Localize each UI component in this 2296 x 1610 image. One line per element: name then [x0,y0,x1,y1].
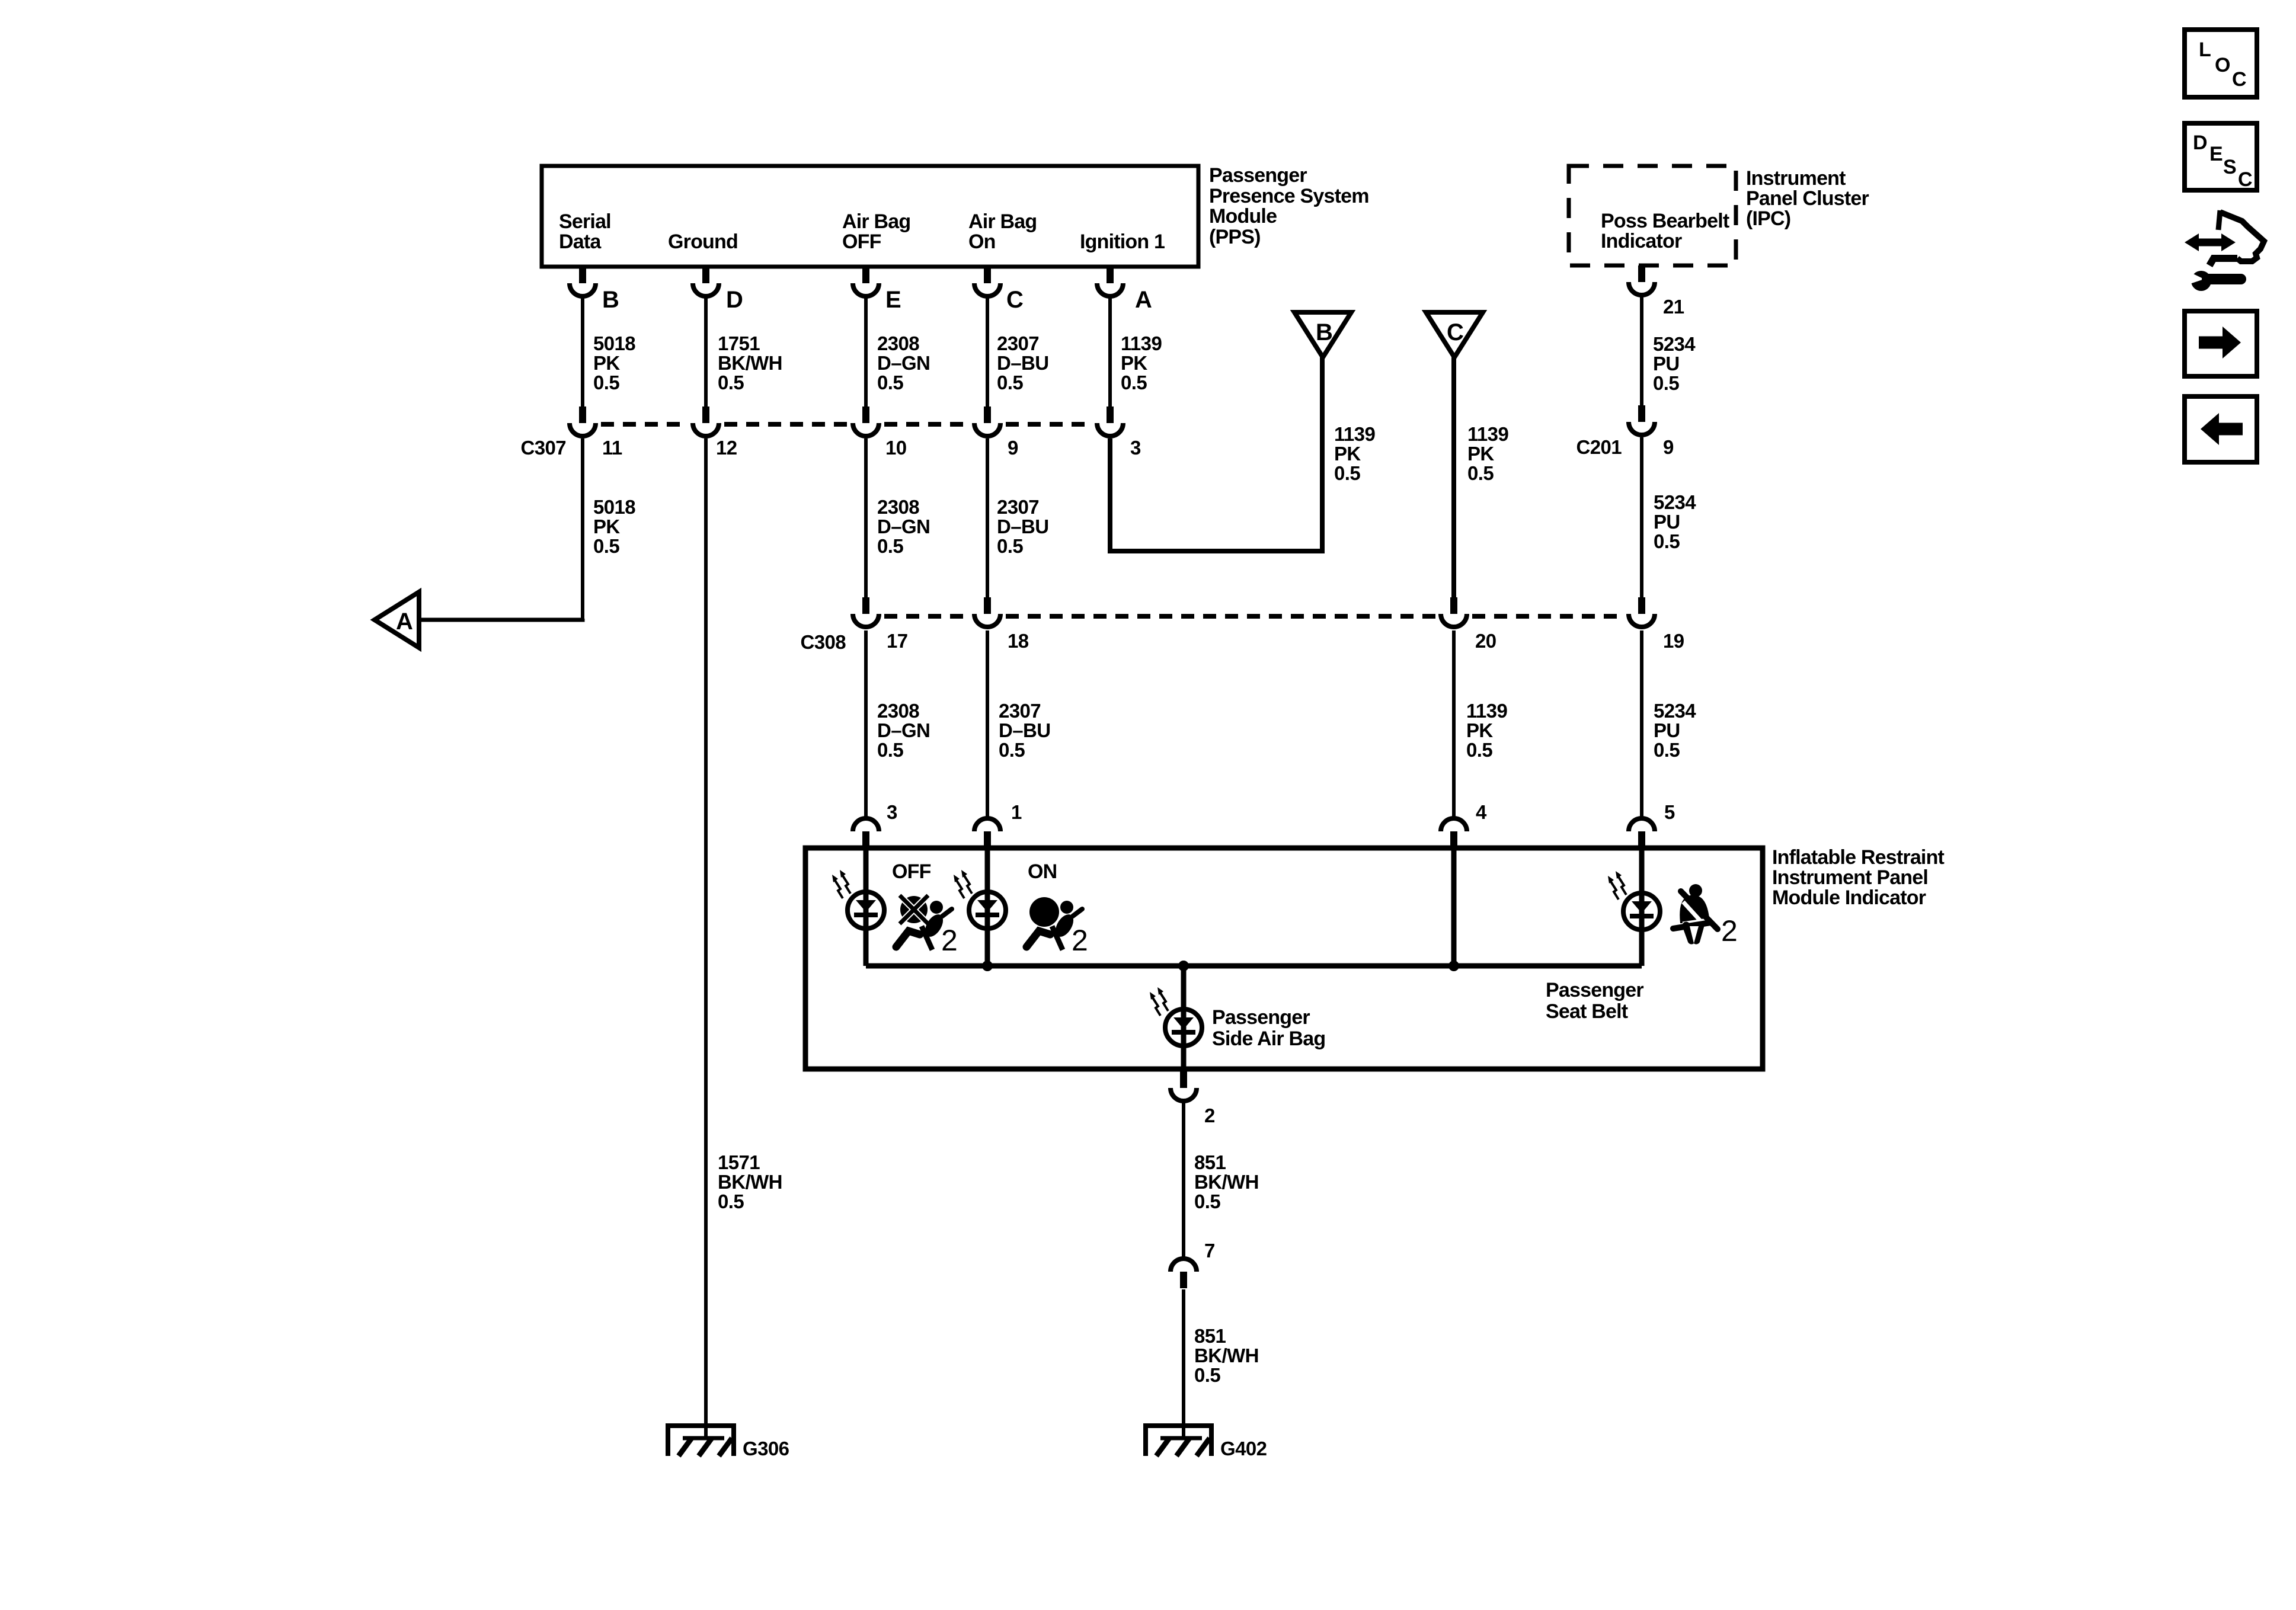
wire label 5234 PU 0.5 (pin 21) [1653,333,1696,394]
svg-text:Indicator: Indicator [1601,230,1682,252]
C307 dashed harness line segment 3 [884,422,969,427]
legend repair icon: double arrow, terminal outline, wrench [2185,210,2264,291]
wire PPS pin B to C307 [581,296,584,406]
svg-text:L: L [2199,39,2211,61]
svg-text:5234: 5234 [1654,700,1696,722]
wire C308 18-1 to module [986,630,989,817]
svg-text:12: 12 [716,437,737,459]
svg-text:2308: 2308 [877,700,919,722]
svg-text:0.5: 0.5 [593,372,619,393]
svg-text:PK: PK [1466,719,1493,741]
svg-text:0.5: 0.5 [1654,530,1680,552]
svg-text:D–GN: D–GN [877,719,930,741]
legend DESC box [2185,123,2257,191]
PPS pin A connector [1097,267,1123,296]
wire label 1571 BK/WH 0.5 (ground wire) [718,1151,782,1212]
wire label 5018 PK 0.5 (pin B) [593,332,635,393]
svg-text:S: S [2223,156,2236,178]
C308 dashed harness line segment 3 [1472,614,1623,619]
connector C308 cavity 18 [974,597,1000,627]
svg-text:5234: 5234 [1654,491,1696,513]
svg-text:0.5: 0.5 [718,372,744,393]
C308 dashed harness line segment 1 [884,614,969,619]
wire label 2308 D-GN 0.5 (above module) [877,700,930,761]
svg-text:2308: 2308 [877,332,919,354]
svg-text:Passenger: Passenger [1212,1006,1310,1029]
module pin 2 connector [1171,1071,1197,1101]
LED indicator Passenger Side Air Bag lamp [1150,987,1202,1046]
legend LOC box [2185,30,2257,97]
wire PPS pin E to C307 [864,296,868,406]
svg-text:851: 851 [1194,1151,1226,1173]
svg-text:Module Indicator: Module Indicator [1772,886,1926,909]
module inner wire pin 1 to bus [985,848,990,966]
wire label 5018 PK 0.5 (below C307) [593,496,635,557]
svg-text:BK/WH: BK/WH [1194,1345,1259,1366]
svg-text:PK: PK [593,516,620,537]
C308 dashed harness line segment 2 [1006,614,1435,619]
module inner bus wire [866,964,1642,969]
svg-text:D–BU: D–BU [997,516,1048,537]
connector C307 cavity 3 [1097,406,1123,436]
module inner wire pin 4 to bus [1451,848,1457,966]
module inner wire pin 3 to bus [864,848,869,966]
module pin 5 connector [1629,818,1655,848]
off-page reference triangle C [1426,312,1483,357]
connector C307 cavity 11 [570,406,596,436]
wire 2308 D-GN from C307-10 to C308 [864,438,868,597]
svg-text:851: 851 [1194,1325,1226,1347]
svg-text:0.5: 0.5 [877,739,903,761]
svg-text:A: A [1135,287,1152,313]
svg-text:7: 7 [1204,1240,1215,1262]
wire 1751/1571 BK/WH ground wire from C307-12 to G306 [704,438,708,1438]
svg-text:18: 18 [1008,630,1029,652]
wire label 1139 PK 0.5 (pin A) [1121,332,1162,393]
svg-text:C201: C201 [1576,436,1622,458]
icon passenger seat belt pictograph with subscript 2 [1673,884,1738,948]
svg-text:4: 4 [1476,801,1487,823]
svg-text:D–BU: D–BU [999,719,1050,741]
connector C307 cavity 10 [853,406,879,436]
svg-text:BK/WH: BK/WH [1194,1171,1259,1193]
icon air bag OFF (crossed airbag pictograph) with subscript 2 [896,894,958,957]
legend forward arrow box [2185,311,2257,376]
svg-text:0.5: 0.5 [997,535,1023,557]
junction dot at pin4 bus [1448,961,1459,971]
wire label 2307 D-BU 0.5 (above module) [999,700,1050,761]
module title [1772,846,1945,909]
svg-text:ON: ON [1028,860,1057,883]
svg-text:PK: PK [593,352,620,374]
svg-text:PK: PK [1121,352,1147,374]
svg-text:E: E [2209,143,2223,165]
icon air bag ON pictograph with subscript 2 [1027,897,1088,957]
svg-text:17: 17 [887,630,908,652]
C307 dashed harness line segment 2 [724,422,848,427]
svg-text:C307: C307 [521,437,567,459]
wire label 1139 PK 0.5 (triangle B wire) [1334,423,1375,484]
PPS pin D connector [693,267,719,296]
svg-text:PU: PU [1654,719,1680,741]
svg-text:5: 5 [1664,801,1675,823]
svg-text:Ignition 1: Ignition 1 [1080,231,1165,253]
wire 851 BK/WH to ground G402 [1182,1289,1185,1438]
label Passenger Seat Belt [1546,979,1643,1023]
svg-text:0.5: 0.5 [1334,462,1360,484]
module pin 3 connector [853,818,879,848]
svg-text:0.5: 0.5 [718,1190,744,1212]
module inner wire bus to pin 2 [1181,966,1187,1071]
wire label 1139 PK 0.5 (above module) [1466,700,1507,761]
svg-text:G306: G306 [743,1438,789,1459]
svg-text:BK/WH: BK/WH [718,352,782,374]
Passenger Presence System Module (PPS) box [542,166,1198,267]
svg-text:Inflatable Restraint: Inflatable Restraint [1772,846,1945,869]
svg-text:PU: PU [1653,353,1680,375]
C307 dashed harness line segment 4 [1006,422,1092,427]
wire label 5234 PU 0.5 (below C201) [1654,491,1696,552]
svg-text:0.5: 0.5 [1121,372,1147,393]
connector C308 cavity 20 [1441,597,1467,627]
wire label 2307 D-BU 0.5 (below C307) [997,496,1048,557]
svg-text:Passenger: Passenger [1546,979,1643,1001]
svg-text:0.5: 0.5 [999,739,1025,761]
svg-text:D–GN: D–GN [877,516,930,537]
PPS pin B connector [570,267,596,296]
wire label 851 BK/WH 0.5 (upper) [1194,1151,1259,1212]
svg-text:0.5: 0.5 [1466,739,1492,761]
svg-text:C: C [2232,68,2246,91]
PPS pin label Air Bag On [968,210,1037,253]
svg-text:E: E [885,287,901,313]
junction dot at pin1 bus [982,961,993,971]
svg-text:Side Air Bag: Side Air Bag [1212,1028,1325,1050]
svg-text:2307: 2307 [997,332,1039,354]
svg-text:Poss Bearbelt: Poss Bearbelt [1601,210,1729,232]
svg-text:Serial: Serial [559,210,611,233]
svg-text:19: 19 [1663,630,1684,652]
wire 851 BK/WH from pin 2 [1182,1103,1185,1257]
IPC pin 21 connector [1629,265,1655,295]
wire 5234 PU from IPC pin 21 to C201 [1640,296,1643,405]
svg-text:0.5: 0.5 [1194,1190,1220,1212]
svg-text:1139: 1139 [1467,423,1508,445]
svg-text:5234: 5234 [1653,333,1696,355]
svg-text:21: 21 [1663,296,1684,318]
svg-text:Presence System: Presence System [1209,185,1369,207]
svg-text:2: 2 [1721,914,1738,948]
legend back arrow box [2185,396,2257,462]
LED indicator Air Bag OFF lamp [832,870,884,929]
module pin 1 connector [974,818,1000,848]
LED indicator Passenger Seat Belt lamp [1608,871,1660,930]
wire label 2308 D-GN 0.5 (below C307) [877,496,930,557]
wire PPS pin D to C307 [704,296,708,406]
wire label 1139 PK 0.5 (triangle C wire) [1467,423,1508,484]
ground symbol G306 [668,1426,734,1456]
wire label 2307 D-BU 0.5 (pin C) [997,332,1048,393]
connector C307 cavity 12 [693,406,719,436]
svg-text:D: D [726,287,743,313]
svg-text:Passenger: Passenger [1209,164,1307,187]
wire 5234 PU from C201 to C308 [1640,437,1643,597]
svg-text:1571: 1571 [718,1151,760,1173]
wire 5018 PK from C307-11 down [581,438,584,620]
wire 1139 PK from C307-3 jog to off-page reference B [1110,357,1322,551]
svg-text:0.5: 0.5 [997,372,1023,393]
label Passenger Side Air Bag [1212,1006,1325,1050]
IPC title [1746,167,1869,230]
svg-text:1139: 1139 [1466,700,1507,722]
PPS pin C connector [974,267,1000,296]
svg-text:0.5: 0.5 [593,535,619,557]
svg-text:9: 9 [1663,436,1674,458]
svg-text:B: B [602,287,619,313]
wire 5018 PK horizontal run to off-page reference A [419,619,583,620]
junction dot at side air bag branch [1178,961,1189,971]
wire 1139 PK from triangle C to C308 [1451,357,1456,597]
svg-text:C: C [1447,319,1464,345]
svg-text:0.5: 0.5 [1467,462,1494,484]
svg-text:1: 1 [1011,801,1022,823]
svg-text:Seat Belt: Seat Belt [1546,1000,1628,1023]
svg-text:3: 3 [1130,437,1141,459]
module inner wire pin 5 to bus [1639,848,1645,966]
connector C308 cavity 17 [853,597,879,627]
off-page reference triangle A [375,592,419,648]
LED indicator Air Bag ON lamp [954,870,1006,929]
wire PPS pin A to C307 [1108,296,1112,406]
wire 2307 D-BU from C307-9 to C308 [986,438,989,597]
svg-text:0.5: 0.5 [877,535,903,557]
svg-text:5018: 5018 [593,496,635,518]
connector C201 cavity 9 [1629,405,1655,435]
svg-text:1139: 1139 [1334,423,1375,445]
svg-text:On: On [968,231,996,253]
svg-text:3: 3 [887,801,897,823]
svg-text:0.5: 0.5 [1654,739,1680,761]
svg-text:(PPS): (PPS) [1209,226,1261,248]
wire PPS pin C to C307 [986,296,989,406]
C307 dashed harness line segment 1 [601,422,687,427]
svg-text:Module: Module [1209,205,1277,228]
Inflatable Restraint Instrument Panel Module Indicator box [805,848,1763,1069]
off-page reference triangle B [1294,312,1351,357]
svg-text:A: A [396,609,413,635]
PPS pin E connector [853,267,879,296]
svg-text:2308: 2308 [877,496,919,518]
svg-text:0.5: 0.5 [877,372,903,393]
PPS pin label Serial Data [559,210,611,253]
svg-text:O: O [2215,54,2230,76]
wire label 851 BK/WH 0.5 (lower) [1194,1325,1259,1386]
svg-text:Air Bag: Air Bag [842,210,910,233]
wire C308 20-4 to module [1452,630,1456,817]
svg-text:OFF: OFF [892,860,931,883]
connector C308 cavity 19 [1629,597,1655,627]
module pin 4 connector [1441,818,1467,848]
svg-text:2307: 2307 [999,700,1041,722]
svg-text:PK: PK [1334,443,1361,465]
svg-text:0.5: 0.5 [1194,1364,1220,1386]
svg-text:9: 9 [1008,437,1018,459]
ground symbol G402 [1146,1426,1211,1456]
svg-text:Panel Cluster: Panel Cluster [1746,187,1869,210]
wire C308 19-5 to module [1640,630,1643,817]
svg-text:D–BU: D–BU [997,352,1048,374]
svg-text:B: B [1316,319,1333,345]
svg-text:2307: 2307 [997,496,1039,518]
wire label 5234 PU 0.5 (above module) [1654,700,1696,761]
svg-text:D: D [2193,132,2207,154]
svg-text:2: 2 [1072,924,1088,957]
svg-text:C308: C308 [801,631,846,653]
svg-text:PU: PU [1654,511,1680,533]
wire label 1751 BK/WH 0.5 (pin D) [718,332,782,393]
svg-text:Air Bag: Air Bag [968,210,1037,233]
PPS module title [1209,164,1369,248]
svg-text:Ground: Ground [668,231,738,253]
svg-text:0.5: 0.5 [1653,372,1679,394]
svg-text:11: 11 [602,437,622,459]
svg-text:1139: 1139 [1121,332,1162,354]
svg-text:20: 20 [1475,630,1496,652]
svg-text:D–GN: D–GN [877,352,930,374]
connector C307 cavity 9 [974,406,1000,436]
Instrument Panel Cluster (IPC) dashed box [1569,166,1736,265]
svg-text:G402: G402 [1220,1438,1267,1459]
svg-text:Data: Data [559,231,602,253]
svg-text:BK/WH: BK/WH [718,1171,782,1193]
svg-text:5018: 5018 [593,332,635,354]
svg-text:2: 2 [1204,1105,1215,1126]
IPC Poss Bearbelt Indicator label [1601,210,1729,252]
inline connector cavity 7 [1171,1259,1197,1288]
svg-text:(IPC): (IPC) [1746,207,1790,230]
svg-text:OFF: OFF [842,231,881,253]
svg-text:C: C [1006,287,1024,313]
PPS pin label Air Bag OFF [842,210,910,253]
wire C308 17-3 to module [864,630,868,817]
svg-text:2: 2 [941,924,958,957]
svg-text:Instrument: Instrument [1746,167,1846,190]
svg-text:C: C [2238,168,2252,191]
svg-text:1751: 1751 [718,332,760,354]
svg-text:10: 10 [885,437,907,459]
svg-text:PK: PK [1467,443,1494,465]
svg-text:Instrument Panel: Instrument Panel [1772,866,1928,889]
wire label 2308 D-GN 0.5 (pin E) [877,332,930,393]
